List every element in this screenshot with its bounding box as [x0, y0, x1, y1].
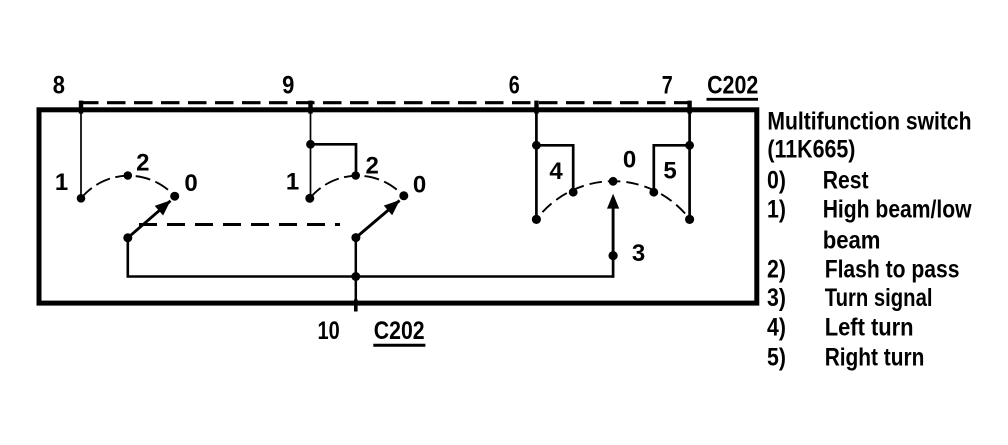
switch S2 wiper arm with arrowhead — [356, 200, 400, 238]
svg-text:(11K665): (11K665) — [767, 136, 855, 164]
svg-text:8: 8 — [53, 71, 65, 99]
svg-text:2): 2) — [767, 256, 786, 284]
switch S3 feed wire to collector — [612, 256, 615, 278]
switch S1 wiper pivot dot — [123, 233, 132, 242]
svg-text:0: 0 — [623, 147, 636, 174]
collector junction dot at pin 10 drop — [351, 272, 360, 281]
switch S2 contact arc (dashed) — [310, 176, 404, 199]
pin 10 terminal tick — [354, 300, 358, 312]
svg-text:0: 0 — [184, 170, 197, 197]
switch S2 contact 0 dot — [399, 191, 408, 200]
svg-text:0): 0) — [767, 166, 786, 194]
switch S3 contact 4 dot — [569, 188, 578, 197]
svg-text:2: 2 — [136, 150, 149, 177]
switch S3 wiper arm with arrowhead — [607, 194, 619, 256]
collector wire (wiper common feed) — [127, 275, 614, 278]
svg-text:C202: C202 — [374, 317, 425, 345]
switch S3 right end contact dot — [685, 215, 694, 224]
svg-text:2: 2 — [366, 153, 379, 180]
wire 7 junction dot — [685, 141, 694, 150]
wire pin 7 to S3 right contact — [688, 113, 691, 219]
connector C202 top label underline — [707, 98, 759, 101]
switch S2 contact 2 dot — [351, 171, 360, 180]
pin 8 terminal tick — [79, 101, 83, 114]
svg-text:Left turn: Left turn — [825, 314, 914, 342]
switch S3 contact 0 dot — [609, 177, 618, 186]
switch S1 wiper arm with arrowhead — [128, 200, 171, 238]
switch S1 (high/low beam) contact 1 dot — [77, 194, 86, 203]
mechanical link dashed line between S1 and S2 wipers — [139, 223, 340, 226]
pin 7 terminal tick — [687, 101, 691, 114]
svg-text:Multifunction switch: Multifunction switch — [767, 108, 971, 136]
wire branch 9 to S2 contact 2 — [311, 144, 357, 175]
switch S1 contact 2 dot — [124, 171, 133, 180]
connector C202 bottom label underline — [373, 344, 425, 347]
switch S2 pivot feed wire through box to pin 10 — [355, 238, 358, 312]
wire branch 7 to S3 contact 5 — [654, 145, 690, 192]
svg-text:1): 1) — [767, 196, 786, 224]
wire pin 8 to S1 contact 1 — [80, 113, 82, 198]
svg-text:C202: C202 — [707, 71, 758, 99]
switch S3 contact 3 dot — [609, 251, 618, 260]
svg-text:3: 3 — [632, 240, 645, 267]
svg-text:3): 3) — [767, 284, 786, 312]
switch S2 wiper pivot dot — [351, 233, 360, 242]
connector C202 top dashed bus line — [80, 101, 692, 104]
svg-text:4): 4) — [767, 314, 786, 342]
svg-text:9: 9 — [282, 71, 294, 99]
svg-text:0: 0 — [413, 172, 426, 199]
wire branch 6 to S3 contact 4 — [536, 145, 573, 192]
switch S1 contact 0 dot — [170, 192, 179, 201]
svg-text:6: 6 — [509, 71, 520, 99]
svg-text:Right turn: Right turn — [825, 343, 925, 371]
wire 6 junction dot — [532, 141, 541, 150]
switch S1 contact arc (dashed) — [81, 176, 175, 199]
svg-text:1: 1 — [286, 169, 299, 196]
svg-text:5): 5) — [767, 343, 786, 371]
svg-text:Rest: Rest — [823, 166, 869, 194]
svg-text:Turn signal: Turn signal — [825, 284, 933, 312]
pin 9 terminal tick — [308, 101, 312, 114]
switch S3 left end contact dot — [532, 215, 541, 224]
wire 9 junction dot — [306, 140, 315, 149]
switch S3 contact 5 dot — [649, 188, 658, 197]
svg-text:High beam/low: High beam/low — [823, 196, 972, 224]
svg-text:7: 7 — [662, 71, 673, 99]
svg-text:10: 10 — [318, 317, 340, 345]
multifunction switch component box — [39, 110, 757, 303]
switch S3 (turn signal) contact arc (dashed) — [536, 181, 690, 219]
wire pin 9 to S2 contact 1 — [310, 113, 312, 198]
wire pin 6 to S3 left contact — [535, 113, 538, 219]
svg-text:Flash to pass: Flash to pass — [825, 256, 960, 284]
switch S2 (flash to pass) contact 1 dot — [305, 194, 314, 203]
pin 6 terminal tick — [534, 101, 538, 114]
svg-text:4: 4 — [549, 158, 563, 185]
svg-text:1: 1 — [55, 169, 68, 196]
switch S1 pivot feed wire (down to collector) — [127, 238, 130, 278]
svg-text:5: 5 — [663, 158, 676, 185]
svg-text:beam: beam — [823, 226, 881, 254]
